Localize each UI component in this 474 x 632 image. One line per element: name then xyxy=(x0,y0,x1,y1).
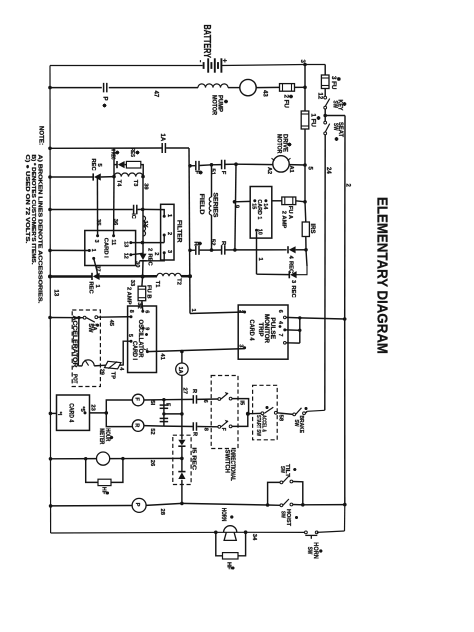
junction series field bottom node 52 xyxy=(210,248,214,252)
box ACCEL START SW (dashed) xyxy=(253,385,278,440)
svg-text:A) BROKEN LINES DENOTE ACCESSO: A) BROKEN LINES DENOTE ACCESSORIES. xyxy=(37,155,43,305)
junction 27/stack xyxy=(180,412,184,416)
wire rail to capacitor 1A xyxy=(50,147,162,149)
svg-text:1: 1 xyxy=(90,249,96,252)
card PULSE MONITOR TRIP CARD 4 xyxy=(238,305,288,359)
wire to diode 6REC xyxy=(114,164,117,166)
star cap F1 xyxy=(199,172,203,174)
svg-text:37: 37 xyxy=(95,266,101,272)
junction F/R fork xyxy=(105,411,109,415)
wire pin7 to trip pin 3 (41) xyxy=(147,349,244,352)
horn HORN symbol xyxy=(224,526,237,533)
wire battery to node 3 xyxy=(222,65,306,66)
wire heavy line middle xyxy=(100,275,157,278)
motor PUMP MOTOR xyxy=(240,79,256,95)
wire fuse 2FU to node xyxy=(295,86,306,88)
resistor RES xyxy=(126,161,140,168)
wire to key/seat branch corner xyxy=(305,64,325,66)
star mark drive motor xyxy=(288,144,292,146)
wire to resistor 1RS xyxy=(304,202,307,222)
coil P (pump contactor) xyxy=(132,498,146,512)
pin 9 osc card xyxy=(142,327,145,330)
inductor 1X xyxy=(143,216,146,236)
coil R contactor xyxy=(132,420,144,432)
svg-text:T3: T3 xyxy=(132,180,138,187)
svg-text:7: 7 xyxy=(277,334,283,337)
svg-text:R: R xyxy=(191,389,197,393)
switch BRAKE SW xyxy=(293,413,296,416)
brush tab A1 xyxy=(288,158,291,160)
star accel sw xyxy=(266,407,269,409)
wire tilt right to rail xyxy=(303,504,345,506)
wire brake to seat rail xyxy=(305,411,307,413)
inductor T1-T2 winding xyxy=(157,273,181,276)
wire to hoist switch xyxy=(268,504,281,506)
resistor 1RS xyxy=(302,222,309,237)
svg-text:33: 33 xyxy=(129,280,135,287)
svg-text:36: 36 xyxy=(112,219,118,226)
svg-text:CARD 1: CARD 1 xyxy=(256,199,262,220)
wire filter pin3 to diode foot xyxy=(143,253,164,261)
wire cap to directional sw F xyxy=(197,398,218,400)
star hour meter xyxy=(110,437,113,439)
svg-text:28: 28 xyxy=(159,509,165,516)
svg-text:T1: T1 xyxy=(154,281,160,288)
svg-text:1A: 1A xyxy=(159,134,165,142)
junction pin13/filter wire xyxy=(141,241,145,245)
fuse FU A xyxy=(282,197,296,205)
svg-text:T2: T2 xyxy=(176,278,182,285)
wire capF2 to node 9 column xyxy=(225,163,236,165)
junction horn left xyxy=(214,531,218,535)
svg-text:SW: SW xyxy=(280,511,286,518)
svg-text:11: 11 xyxy=(110,239,116,245)
wire 35 column xyxy=(96,177,98,236)
svg-text:10: 10 xyxy=(257,229,263,235)
wire rail to hour meter xyxy=(51,458,97,460)
pin 2 trip card xyxy=(243,311,246,314)
svg-text:35: 35 xyxy=(95,219,101,226)
svg-text:5: 5 xyxy=(127,334,133,337)
junction rail/heavy line xyxy=(48,275,52,279)
pin 1 filter xyxy=(163,215,166,218)
svg-text:FILTER: FILTER xyxy=(175,220,182,243)
svg-text:F: F xyxy=(220,171,226,175)
junction cap stack mid xyxy=(162,412,165,415)
pin 4 trip card xyxy=(283,328,286,331)
wire rail to card4 pin1 xyxy=(50,412,56,414)
wire F coil to cap node xyxy=(144,399,164,401)
switch ACCEL START xyxy=(261,412,264,415)
svg-text:3: 3 xyxy=(237,344,243,347)
svg-text:P: P xyxy=(102,97,109,101)
wire pot to TP xyxy=(94,364,106,367)
junction node9 bottom xyxy=(233,248,237,252)
junction node9 top xyxy=(234,162,238,166)
svg-text:13: 13 xyxy=(122,241,128,247)
wire node9 column xyxy=(235,164,236,250)
wire 2REC to heavy line xyxy=(142,261,144,277)
junction pot tap xyxy=(77,316,80,319)
capacitor P xyxy=(103,83,105,93)
battery BATTERY (3 cells) xyxy=(203,62,205,69)
svg-text:1 FU: 1 FU xyxy=(310,114,317,128)
junction rail/1A cap wire xyxy=(48,147,52,151)
pin 3 filter xyxy=(163,251,166,254)
wire pin to heavy line (37) xyxy=(94,258,98,276)
wire pin6 out xyxy=(286,316,300,319)
svg-text:1A: 1A xyxy=(177,367,183,374)
svg-text:MOTOR: MOTOR xyxy=(276,134,283,154)
wire pump motor to fuse 2FU xyxy=(256,86,279,88)
fuse FU B xyxy=(138,286,146,301)
diode 15REC lower xyxy=(178,471,185,473)
wire fork to F coil xyxy=(106,400,132,413)
junction rail/card4 xyxy=(49,412,53,416)
svg-text:RES: RES xyxy=(129,148,135,157)
svg-text:START SW: START SW xyxy=(255,415,261,437)
svg-text:F: F xyxy=(193,171,199,175)
junction tilt right xyxy=(301,503,305,507)
wire right corner up xyxy=(344,505,346,531)
svg-text:ACCELERATOR: ACCELERATOR xyxy=(71,316,78,368)
wire 3REC row xyxy=(257,273,290,275)
svg-text:SW: SW xyxy=(87,323,93,333)
svg-text:SW: SW xyxy=(331,101,338,109)
svg-text:13: 13 xyxy=(53,290,59,297)
svg-text:HF: HF xyxy=(225,562,231,570)
pin 3 trip card xyxy=(243,346,246,349)
svg-text:8: 8 xyxy=(128,310,134,313)
junction F cap node xyxy=(162,398,165,401)
junction V190/heavy line xyxy=(188,274,192,278)
node 3 junction xyxy=(303,63,307,67)
inductor T4-T3 winding xyxy=(114,173,143,177)
junction pin6/loop xyxy=(298,316,301,319)
svg-text:58: 58 xyxy=(278,415,284,422)
svg-text:METER: METER xyxy=(98,428,104,445)
wire pot left xyxy=(78,365,82,367)
wire R coil to cap node xyxy=(144,425,164,428)
junction F cap row / V190 xyxy=(188,164,192,168)
wire pot column xyxy=(77,318,80,366)
wire to mid tap xyxy=(181,446,183,458)
wire 4REC to rail xyxy=(296,249,306,251)
junction R cap row / V190 xyxy=(188,249,192,253)
box FILTER xyxy=(161,204,174,260)
wire horn HF left xyxy=(216,532,223,556)
junction rail/pin1 wire xyxy=(48,249,52,253)
svg-text:I5: I5 xyxy=(239,400,245,405)
capacitor 1C xyxy=(133,205,135,215)
diode 2 REC xyxy=(139,254,146,260)
wire dir R to junction xyxy=(232,415,248,426)
wire net 2 down to pulse monitor node xyxy=(344,116,346,320)
svg-text:HORN: HORN xyxy=(220,508,226,522)
star HF xyxy=(106,492,109,494)
star 6REC xyxy=(115,152,119,154)
resistor HF (horn) xyxy=(223,553,239,559)
svg-text:2 AMP: 2 AMP xyxy=(125,287,131,305)
wire pin6-7 loop vertical xyxy=(299,318,301,343)
wire 1RS to 4REC line xyxy=(305,237,307,250)
wire to capacitor F2 xyxy=(212,164,222,166)
junction rail/P row xyxy=(49,504,53,508)
svg-text:6: 6 xyxy=(277,310,283,313)
svg-text:I5 REC: I5 REC xyxy=(191,448,197,471)
wire corner to brake switch xyxy=(307,410,325,411)
wire to cap R6 xyxy=(164,398,193,400)
switch HORN SW (pushbutton) xyxy=(305,531,308,534)
wire 15REC to P row xyxy=(181,480,183,504)
svg-text:F: F xyxy=(220,428,226,431)
fuse 2FU xyxy=(280,84,295,92)
svg-text:POT: POT xyxy=(71,374,77,384)
capacitor F (field filter 1) xyxy=(195,161,197,171)
star cap R1 xyxy=(198,243,202,245)
inductor pump motor field coil xyxy=(198,84,228,88)
svg-text:REC: REC xyxy=(90,159,96,172)
svg-text:+: + xyxy=(221,59,228,63)
svg-text:CARD I: CARD I xyxy=(102,238,108,258)
motor DRIVE MOTOR xyxy=(273,156,289,172)
svg-text:REC: REC xyxy=(290,286,296,299)
card OSCILLATOR CARD 1 xyxy=(128,306,157,373)
capacitor 1A xyxy=(161,143,163,153)
inductor SERIES FIELD xyxy=(209,197,211,215)
wire dir F to junction 15 xyxy=(232,399,249,413)
svg-text:R: R xyxy=(133,423,139,427)
wire key junction to net 2 rail xyxy=(325,115,345,117)
diode 3 REC xyxy=(288,271,290,278)
svg-text:2 AMP: 2 AMP xyxy=(281,211,287,229)
card CARD 1 (field) xyxy=(250,187,272,239)
junction rail/hour meter xyxy=(49,457,53,461)
wire HF branch right xyxy=(111,459,123,483)
pin 7 osc card xyxy=(146,350,149,353)
diode 15REC upper xyxy=(178,440,185,446)
wire to 1A coil xyxy=(181,352,183,364)
svg-text:34: 34 xyxy=(251,534,257,541)
wire pin10 down xyxy=(256,232,258,274)
star RES xyxy=(136,152,140,154)
resistor HF xyxy=(98,479,111,485)
box DIRECTIONAL SWITCH (dashed) xyxy=(211,376,238,449)
pin 11 logic card xyxy=(112,234,115,237)
junction T4 xyxy=(112,175,116,179)
wire FU B to osc pin 6 xyxy=(141,301,144,312)
switch SEAT SW xyxy=(324,121,327,124)
svg-text:29: 29 xyxy=(99,369,105,375)
junction node 9 xyxy=(233,200,237,204)
coil F contactor xyxy=(132,394,144,406)
svg-text:4: 4 xyxy=(277,321,283,324)
svg-text:SW: SW xyxy=(293,420,299,427)
wire 27 col to diode xyxy=(181,414,183,440)
wire cap 1C to column xyxy=(138,208,143,210)
svg-text:TRIP: TRIP xyxy=(257,323,264,337)
capacitor F (field filter 2) xyxy=(221,160,223,170)
svg-text:52: 52 xyxy=(149,428,155,434)
svg-text:F: F xyxy=(134,397,140,401)
wire down to 3REC corner xyxy=(306,250,307,266)
svg-text:P: P xyxy=(134,503,140,507)
wire to capacitor R2 xyxy=(212,249,222,251)
wire key switch to seat switch xyxy=(324,109,326,121)
wire junction to accel sw xyxy=(248,412,261,414)
wire left rail (landscape bottom rail) xyxy=(49,66,52,534)
junction rail/pump branch xyxy=(48,86,52,90)
pin 3 logic card xyxy=(96,234,99,237)
star horn xyxy=(230,516,233,518)
potentiometer POT element xyxy=(82,360,94,366)
wire field card to fuse FU A xyxy=(272,200,282,202)
svg-text:47: 47 xyxy=(153,91,159,98)
wire field caps to A2 xyxy=(236,163,273,165)
capacitor (F net) xyxy=(192,395,194,404)
wire to cap R8 xyxy=(164,425,193,427)
junction horn right xyxy=(244,530,248,534)
star brake sw xyxy=(305,408,308,410)
star HF horn xyxy=(232,567,235,569)
wire to capacitor R1 xyxy=(190,249,195,251)
svg-text:SW: SW xyxy=(306,547,312,555)
wire 3FU to key switch xyxy=(324,89,326,97)
wire corner to fuse 3FU xyxy=(324,65,326,76)
wire pin4 out xyxy=(286,329,300,331)
switch 1A SW xyxy=(83,316,86,319)
wire P row to tilt loop xyxy=(182,503,268,505)
svg-text:6: 6 xyxy=(202,400,208,403)
svg-text:43: 43 xyxy=(261,90,267,97)
star horn sw xyxy=(319,550,322,552)
wire V190 to trip pin 2 xyxy=(190,312,245,314)
wire T3 junction down (IC,1X) xyxy=(142,177,144,254)
svg-text:3 FU: 3 FU xyxy=(330,76,337,90)
pin 15 field card xyxy=(253,199,256,202)
svg-text:NOTE:: NOTE: xyxy=(38,126,45,145)
svg-text:8: 8 xyxy=(203,428,209,431)
wire series field to node 52 xyxy=(211,215,213,250)
wire stack mid to 27 column xyxy=(164,413,182,415)
test point TP (slashed box) xyxy=(105,361,122,369)
capacitor R (stack) xyxy=(160,417,169,419)
svg-text:1: 1 xyxy=(166,214,172,217)
svg-text:CARD 4: CARD 4 xyxy=(248,320,255,341)
pin 8 osc card xyxy=(130,315,133,318)
svg-text:2: 2 xyxy=(146,248,152,251)
wire HF branch left xyxy=(86,459,98,483)
svg-text:45: 45 xyxy=(108,320,114,327)
junction rail/5REC row xyxy=(48,175,52,179)
wire pin7 out xyxy=(286,342,300,344)
wire T4 up to 1A wire xyxy=(113,148,115,176)
wire diode to resistor RES xyxy=(125,164,127,166)
pin 37 logic card xyxy=(92,257,95,260)
card CARD 4 xyxy=(57,395,90,430)
svg-text:52: 52 xyxy=(210,239,216,245)
wire rail to capacitor 1C xyxy=(50,209,133,211)
svg-text:A1: A1 xyxy=(288,166,294,173)
wire A1 to rail xyxy=(289,164,305,166)
svg-text:REC: REC xyxy=(146,254,152,267)
junction tilt left xyxy=(266,503,270,507)
star hoist sw xyxy=(295,517,298,519)
wire 1A switch to osc pin 8 xyxy=(98,316,131,319)
star mark seat sw xyxy=(335,138,339,140)
junction accel feed xyxy=(246,412,250,416)
wire 4REC row xyxy=(235,249,287,251)
svg-text:BATTERY: BATTERY xyxy=(201,25,212,59)
wire V190 column xyxy=(189,148,190,314)
brush tab A2 xyxy=(272,158,275,160)
pin 1 logic card xyxy=(88,249,91,252)
junction T3 xyxy=(141,175,145,179)
pin 12 logic card xyxy=(129,253,132,256)
fuse 3FU xyxy=(321,75,329,89)
wire capacitor P to pump coil xyxy=(109,87,198,89)
svg-text:2: 2 xyxy=(153,252,159,255)
diode 4 REC xyxy=(287,246,289,253)
star mark 3FU xyxy=(337,78,341,80)
junction pump/1FU rail xyxy=(303,86,307,90)
pin 7 trip card (open) xyxy=(284,342,287,345)
svg-text:IRS: IRS xyxy=(309,224,315,234)
svg-text:FU B: FU B xyxy=(145,285,151,299)
svg-text:2 FU: 2 FU xyxy=(283,95,290,109)
svg-text:27: 27 xyxy=(181,388,187,394)
svg-text:SW: SW xyxy=(279,466,285,473)
wire cap stack column xyxy=(163,400,165,426)
capacitor R (field filter 1) xyxy=(195,245,197,255)
wire rail to pin 1 xyxy=(50,249,89,251)
box 15 REC (dashed) xyxy=(173,435,191,484)
wire rail to diode 5REC xyxy=(50,176,93,178)
svg-text:HF: HF xyxy=(101,487,107,495)
wire rail to 1A switch xyxy=(50,317,83,319)
pin 6 osc card xyxy=(141,310,144,313)
wire pin13 to filter pin2 xyxy=(131,242,164,244)
junction 15REC mid xyxy=(180,457,184,461)
svg-text:15: 15 xyxy=(251,203,257,209)
svg-text:ELEMENTARY DIAGRAM: ELEMENTARY DIAGRAM xyxy=(374,197,391,354)
wire node5 down to FU A node xyxy=(304,165,306,202)
svg-text:B) * DENOTES CUSTOMER'S ITEMS.: B) * DENOTES CUSTOMER'S ITEMS. xyxy=(30,155,36,266)
wire hour meter to 15REC mid xyxy=(110,457,182,459)
svg-text:A2: A2 xyxy=(266,167,272,174)
svg-text:12: 12 xyxy=(317,93,323,100)
coil 1A (relay) xyxy=(176,363,188,375)
star mark key sw xyxy=(343,103,347,105)
svg-text:T4: T4 xyxy=(115,180,121,187)
svg-text:3: 3 xyxy=(166,250,172,253)
switch HOIST SW xyxy=(280,504,283,507)
star mark 1FU xyxy=(317,117,321,119)
wire 36 column xyxy=(113,177,115,236)
wire 1A coil down xyxy=(181,375,183,414)
pin 2 filter xyxy=(163,234,166,237)
wire horn HF right xyxy=(238,532,246,556)
wire top rail (landscape left rail) battery side xyxy=(50,65,203,67)
junction FU A node xyxy=(303,200,307,204)
wire tilt loop left xyxy=(268,482,281,505)
junction net2/pulse monitor xyxy=(343,317,347,321)
wire heavy line to fuse FU B xyxy=(141,277,144,287)
svg-text:CARD 4: CARD 4 xyxy=(68,403,75,422)
wire to capacitor F1 xyxy=(190,165,195,167)
svg-text:41: 41 xyxy=(159,353,165,360)
box ACCELERATOR (dashed) xyxy=(72,310,100,387)
